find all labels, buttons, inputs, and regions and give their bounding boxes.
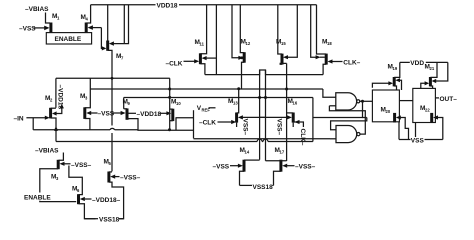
transistor M10 bbox=[171, 99, 181, 122]
node -VSS- label M17 gate bbox=[282, 164, 315, 171]
wire NAND2 output feedback to NAND1 input B bbox=[329, 106, 365, 134]
svg-text:VDD18: VDD18 bbox=[157, 3, 178, 10]
node -VSS label M14 gate bbox=[213, 164, 243, 171]
wire M2 drain riser bbox=[55, 78, 57, 108]
wire M19 source down to M20 box top bbox=[394, 86, 396, 90]
wire mid tail y=138.4 to NAND2 lower input bbox=[194, 138, 331, 140]
svg-text:14: 14 bbox=[245, 150, 250, 155]
wire M5 drain stub to M7-source column bbox=[109, 171, 112, 173]
wire M1 source to box bbox=[46, 32, 51, 34]
wire M9 gate arrow bbox=[121, 111, 126, 115]
transistor M6 bbox=[72, 186, 80, 205]
wire M19 gate lead from input node riser bbox=[372, 81, 393, 88]
node VSS label buffer bbox=[411, 137, 425, 144]
transistor M14 bbox=[240, 147, 250, 172]
svg-text:15: 15 bbox=[281, 41, 286, 46]
wire H4 node A horizontal bbox=[124, 97, 313, 99]
wire VBIAS corner to M3b drain bbox=[59, 153, 64, 161]
wire H4 corner down to tail/NAND2 bbox=[312, 98, 314, 139]
wire NAND1 output down and left toward NAND2 bbox=[313, 101, 363, 117]
transistor M1 bbox=[51, 13, 60, 33]
svg-text:VSS18: VSS18 bbox=[99, 216, 120, 223]
wire M17 source to VSS18 rail bbox=[274, 171, 281, 185]
svg-text:13: 13 bbox=[233, 101, 238, 106]
wire NAND1 input A from H3 bbox=[323, 89, 336, 97]
wire M12 drain stub riser bbox=[240, 5, 244, 53]
svg-text:19: 19 bbox=[393, 66, 398, 71]
wire NAND1 output to M20 box with junction dot bbox=[360, 100, 373, 103]
wire M22 box left edge down to VSS bbox=[415, 123, 417, 138]
svg-text:CLK–: CLK– bbox=[299, 129, 306, 146]
node -VSS- label M5 gate bbox=[120, 174, 141, 181]
transistor M4 bbox=[81, 14, 89, 33]
svg-text:OUT–: OUT– bbox=[440, 96, 458, 103]
svg-text:–VSS–: –VSS– bbox=[295, 164, 316, 171]
wire M16 gate from CLK- rotated label bbox=[295, 120, 304, 127]
node VSS18 label latch bbox=[253, 184, 274, 191]
svg-text:17: 17 bbox=[280, 150, 285, 155]
wire VBIAS riser to M1 drain bbox=[46, 13, 51, 24]
svg-text:VSS–: VSS– bbox=[242, 119, 249, 136]
svg-text:10: 10 bbox=[176, 101, 181, 106]
wire M13 drain stub riser to H3 with dot bbox=[237, 87, 241, 113]
svg-text:VSS–: VSS– bbox=[276, 119, 283, 136]
wire M14 drain stub to vL bbox=[244, 159, 260, 161]
wire M11 bulk arrow lead to rail riser bbox=[202, 56, 217, 60]
wire M4 gate node down to M7 gate bbox=[101, 28, 104, 49]
wire M6 gate from right with arrow bbox=[80, 197, 92, 201]
node -IN label bbox=[14, 115, 24, 122]
wire M3 gate lead from right with arrow bbox=[86, 111, 97, 115]
svg-text:–VDD18–: –VDD18– bbox=[92, 197, 121, 204]
svg-text:16: 16 bbox=[293, 101, 298, 106]
wire hop of source-node wire over M5 riser bbox=[111, 133, 113, 171]
svg-text:–VSS–: –VSS– bbox=[71, 162, 92, 169]
wire M5 gate from right with arrow bbox=[110, 175, 119, 179]
wire lower parallel wire to NAND2 input A bbox=[331, 118, 367, 130]
junction dots on long vertical bbox=[285, 88, 288, 91]
wire V_REF tap: M10 right side to riser bbox=[176, 117, 194, 119]
node -VSS18- label bottom bbox=[84, 216, 123, 223]
node V_REF label bbox=[197, 105, 216, 113]
wire M7 source stub down to H2 and continuing to M5 drain bbox=[108, 50, 112, 125]
transistor M5 bbox=[104, 159, 112, 183]
wire H3 node B horizontal bbox=[90, 88, 323, 90]
wire VDD wire bbox=[400, 61, 448, 63]
wire H2 tail-upper wire bbox=[56, 77, 170, 80]
wire M4 source into box bbox=[82, 32, 87, 34]
wire M3 source stub down to tail-upper wire bbox=[85, 119, 90, 130]
wire long vertical M15 source / node B riser bbox=[286, 63, 288, 161]
wire M22 source arrow lead to VSS riser bbox=[433, 115, 443, 139]
wire M17 drain stub vR to long vertical bbox=[266, 160, 287, 162]
wire tail-upper continues to V_REF corner column bbox=[128, 119, 194, 131]
transistor M9 bbox=[123, 99, 131, 120]
svg-text:20: 20 bbox=[386, 109, 391, 114]
ENABLE box bbox=[46, 33, 91, 44]
wire H4 corner down to M9 drain bbox=[123, 98, 125, 109]
wire M10 drain stub and riser to H4 bbox=[170, 108, 173, 110]
wire vL cross-couple vertical bbox=[258, 70, 261, 160]
svg-text:21: 21 bbox=[430, 66, 435, 71]
wire M18 gate lead from CLK- with arrow bbox=[328, 59, 343, 63]
wire VSS18 rail latch bbox=[240, 184, 274, 186]
wire M4 drain stub and riser to VDD18 rail bbox=[86, 5, 90, 23]
node VDD18 label bbox=[156, 1, 180, 9]
node -VSS label (M1 gate) bbox=[19, 25, 36, 32]
wire M3b gate lead from right with arrow bbox=[60, 162, 71, 166]
wire M2-drain column through H3 and H4 junction dots to tail-upper bbox=[168, 78, 171, 130]
wire M2 source to tail bbox=[55, 130, 57, 142]
wire M21 source down to M22 box top bbox=[430, 86, 432, 88]
wire VDD18 rail bbox=[91, 4, 317, 6]
transistor M3b bbox=[51, 160, 59, 181]
wire M6 source down to VSS18 bbox=[79, 204, 96, 219]
wire M20 box right edge down to VSS bbox=[398, 122, 400, 140]
wire M1 gate lead with arrow bbox=[34, 26, 50, 31]
wire M15 source stub to long vertical bbox=[280, 62, 286, 65]
wire M2 drain stub bbox=[51, 107, 56, 109]
wire M20 drain node to M22 box input bbox=[399, 100, 412, 102]
wire M9 drain stub bbox=[124, 108, 127, 110]
node rotated VSS- label under M13 bbox=[242, 119, 249, 136]
transistor M11 bbox=[195, 39, 205, 64]
transistor M19 bbox=[388, 64, 398, 87]
node CLK- label right bbox=[343, 60, 360, 67]
svg-text:22: 22 bbox=[425, 108, 430, 113]
transistor M16 bbox=[288, 98, 298, 123]
wire M9 source down to tail bbox=[127, 118, 130, 120]
wire M7 bulk arrow and lead to rail riser bbox=[109, 5, 129, 46]
svg-text:–VSS–: –VSS– bbox=[120, 174, 141, 181]
wire M13 source arrow lead to vR bbox=[238, 115, 266, 119]
transistor M17 bbox=[275, 147, 285, 172]
svg-text:–VSS: –VSS bbox=[213, 164, 230, 171]
transistor M15 bbox=[276, 39, 286, 65]
node ENABLE label bottom bbox=[23, 193, 53, 202]
svg-text:–VDD18: –VDD18 bbox=[137, 111, 162, 118]
svg-text:–IN: –IN bbox=[14, 115, 24, 122]
wire M20 source arrow lead to VSS bbox=[396, 115, 409, 139]
node -VSS- label between M3 and M9 bbox=[98, 111, 123, 118]
wire M7 gate arrow bbox=[102, 46, 107, 50]
node OUT label bbox=[435, 96, 457, 103]
box M22 gate routing bbox=[413, 88, 436, 122]
wire H1 virtual rail with hop bbox=[205, 70, 323, 75]
svg-text:11: 11 bbox=[200, 42, 205, 47]
junction dot M2 source node bbox=[55, 128, 58, 131]
svg-text:VSS18: VSS18 bbox=[253, 184, 274, 191]
node -VBIAS top label bbox=[25, 6, 49, 13]
svg-text:ENABLE: ENABLE bbox=[24, 194, 51, 201]
box M20 gate routing bbox=[372, 90, 399, 122]
wire M12 source path with step over cross wires bbox=[242, 62, 245, 89]
node rotated VSS- label under M16 bbox=[276, 119, 283, 136]
wire M7 drain riser to rail bbox=[107, 5, 109, 41]
wire M19 drain stub riser to VDD bbox=[394, 62, 400, 77]
wire M12 gate feed from rail bbox=[232, 5, 243, 60]
wire rail riser x216 down to H1 bbox=[215, 5, 217, 75]
wire long tail y=141.5 with hops bbox=[56, 139, 313, 142]
svg-text:ENABLE: ENABLE bbox=[55, 36, 82, 43]
transistor M3 bbox=[80, 93, 88, 119]
svg-text:–VSS: –VSS bbox=[19, 25, 36, 32]
node -VBIAS label bottom bbox=[35, 148, 59, 155]
junction dot M10 source on tail-upper bbox=[168, 128, 171, 131]
wire tail-upper wire y=129.8 bbox=[33, 128, 138, 129]
wire M14 source to VSS18 rail bbox=[240, 171, 245, 185]
wire M2 source stub down with NMOS arrow bbox=[51, 118, 59, 131]
wire V_REF riser bbox=[193, 110, 195, 138]
wire M3b source left down through ENABLE to M6 bbox=[40, 169, 76, 202]
wire M4 gate lead from right with arrow bbox=[88, 25, 102, 30]
wire M16 drain stub to long vertical bbox=[287, 112, 294, 114]
wire M15 gate feed from rail bbox=[283, 5, 297, 60]
wire M19 bulk arrow lead down to drain node bbox=[395, 78, 401, 90]
wire M11 drain stub and riser bbox=[200, 5, 206, 54]
transistor M12 bbox=[241, 39, 251, 63]
wire M21 bulk arrow lead loop to VDD bbox=[432, 62, 448, 83]
svg-text:–VBIAS: –VBIAS bbox=[35, 148, 59, 155]
node rotated CLK- label bbox=[299, 129, 306, 146]
svg-text:–VSS: –VSS bbox=[98, 111, 115, 118]
wire NAND1 input B lead bbox=[329, 105, 335, 107]
wire M11 source stub down to H1 bbox=[200, 64, 205, 75]
wire M3 drain stub and riser to H2 bbox=[85, 78, 91, 107]
transistor M13 bbox=[228, 98, 238, 123]
transistor M20 bbox=[381, 107, 395, 123]
wire VSS wire buffer bbox=[399, 139, 443, 141]
wire NAND2 input B lead bbox=[330, 138, 336, 140]
node -VDD18- label M6 gate bbox=[92, 197, 121, 204]
wire M21 drain stub riser to VDD bbox=[430, 62, 437, 77]
svg-text:–CLK: –CLK bbox=[166, 60, 183, 67]
svg-text:18: 18 bbox=[327, 41, 332, 46]
gate NAND2 bbox=[336, 126, 360, 143]
node -VSS- label (M3b gate / M6 drain node) bbox=[71, 162, 92, 169]
transistor M21 bbox=[425, 64, 435, 87]
wire M10 source box left bbox=[170, 118, 177, 130]
transistor M7 bbox=[108, 41, 124, 61]
svg-text:12: 12 bbox=[246, 41, 251, 46]
wire M13 bar bottom to M14 drain bbox=[236, 123, 238, 127]
wire M21 gate lead from box top bbox=[421, 81, 429, 88]
wire M18 source stub down to H1 bbox=[323, 64, 326, 74]
svg-text:–CLK: –CLK bbox=[199, 120, 216, 127]
svg-text:VSS: VSS bbox=[411, 137, 425, 144]
wire M2 bulk arrow up with -VDD18 rotated label bbox=[52, 85, 64, 116]
wire vR cross-couple vertical bbox=[264, 70, 267, 161]
wire M16 bar bottom down bbox=[292, 123, 294, 127]
wire M18 bulk lead from rail with arrow bbox=[311, 5, 325, 60]
svg-text:CLK–: CLK– bbox=[343, 60, 360, 67]
wire M2 gate lead bbox=[26, 116, 49, 120]
wire M18 drain stub riser (rail right end) bbox=[317, 5, 327, 54]
wire M16 source arrow lead to vL bbox=[260, 115, 292, 119]
svg-text:–VDD18: –VDD18 bbox=[57, 85, 64, 110]
transistor M2 bbox=[45, 95, 53, 118]
svg-text:–VBIAS: –VBIAS bbox=[25, 6, 49, 13]
wire M6 drain up-left to M3b gate node bbox=[69, 166, 82, 195]
svg-text:VDD: VDD bbox=[410, 60, 424, 67]
wire M9 right lead to -VDD18- label and M10 gate bbox=[128, 111, 171, 118]
node -CLK label left bbox=[166, 60, 183, 67]
wire IN junction drop to tail-upper wire bbox=[32, 118, 34, 130]
wire M5 source down right to VSS18 bbox=[109, 182, 124, 219]
transistor M18 bbox=[322, 39, 332, 65]
wire M11 gate lead with arrow bbox=[184, 59, 200, 63]
node VDD label bbox=[410, 59, 426, 67]
node -CLK label and M13 gate wire bbox=[199, 120, 236, 127]
transistor M22 bbox=[420, 105, 432, 123]
wire M15 drain stub riser bbox=[278, 5, 282, 54]
gate NAND1 bbox=[336, 93, 360, 110]
